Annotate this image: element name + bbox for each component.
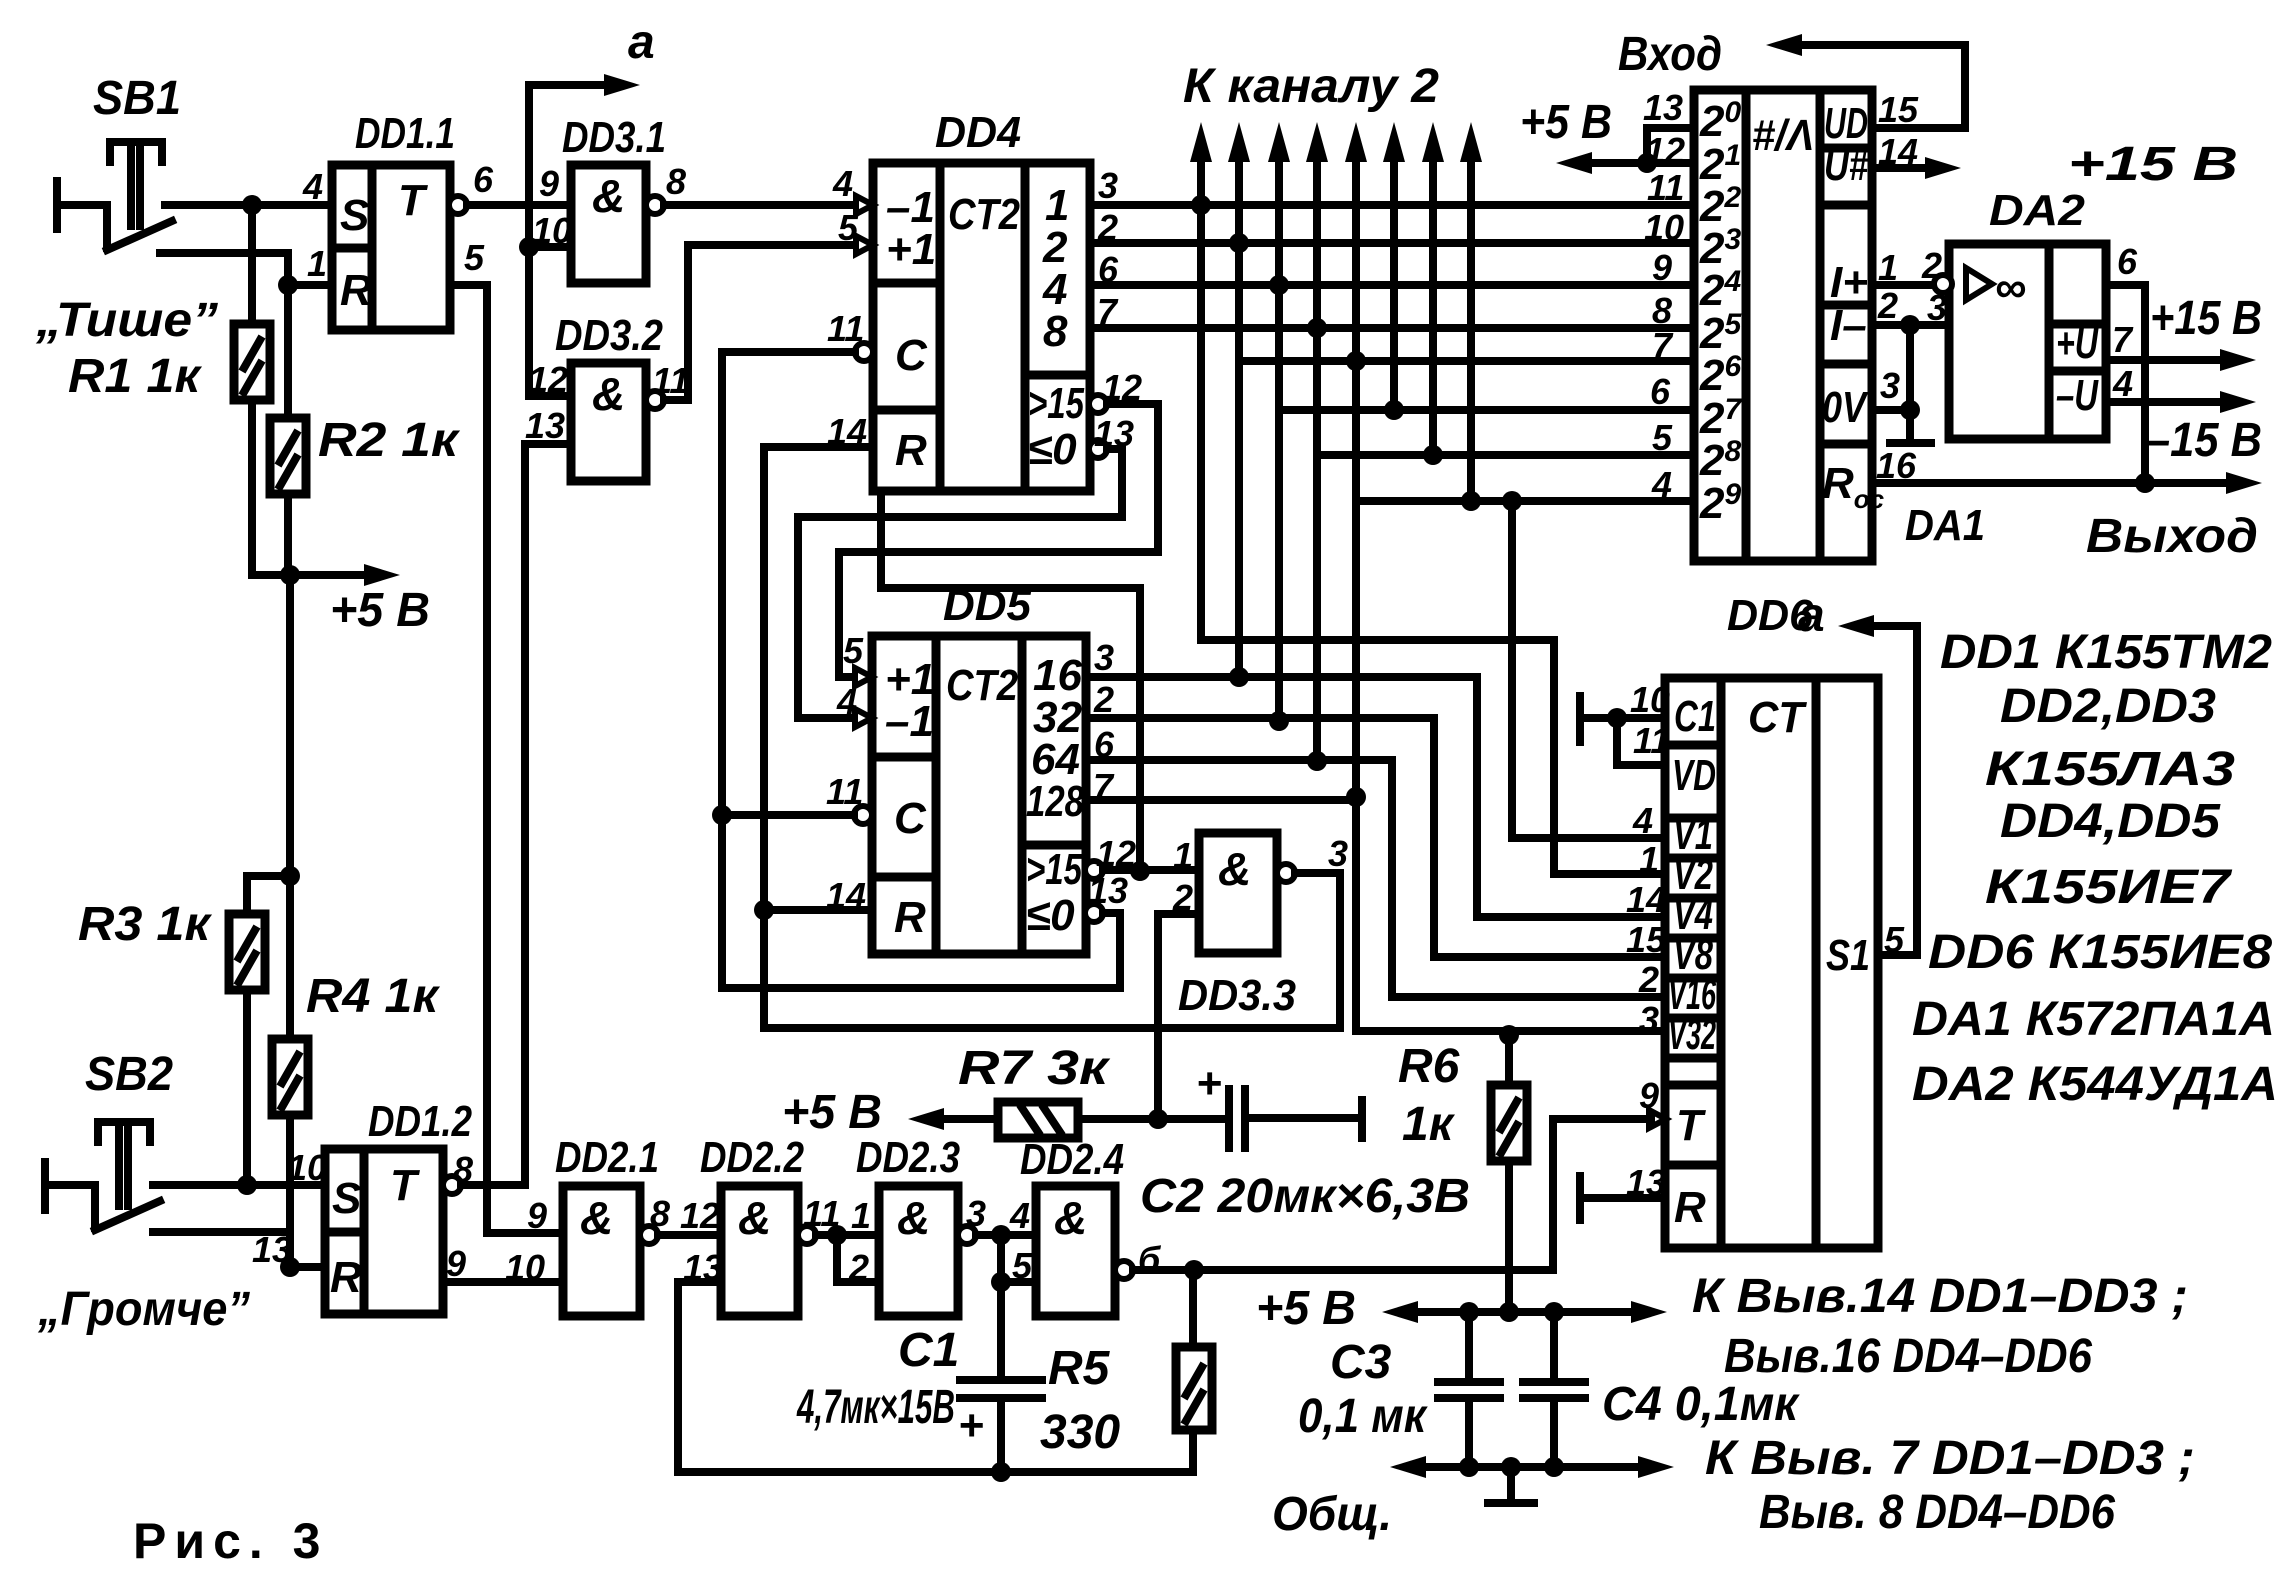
pushbutton SB1 — [107, 221, 172, 250]
svg-text:128: 128 — [1026, 777, 1084, 826]
svg-text:7: 7 — [1652, 325, 1674, 366]
inverted output 8 — [443, 1176, 461, 1194]
svg-text:R: R — [895, 426, 927, 475]
svg-text:&: & — [738, 1192, 771, 1244]
wire R1 to +5V node — [252, 400, 290, 575]
svg-text:+: + — [958, 1401, 984, 1450]
wire terminal to SB2 — [50, 1185, 95, 1228]
svg-text:DD3.2: DD3.2 — [555, 311, 663, 360]
wire DD3.2 pin12 from clock riser — [529, 392, 571, 400]
svg-text:2: 2 — [1093, 679, 1114, 720]
svg-text:+15 В: +15 В — [2150, 292, 2262, 345]
wire DD4 output 4 to DA1 — [1090, 281, 1694, 289]
svg-text:14: 14 — [1878, 131, 1918, 172]
svg-text:&: & — [1054, 1192, 1087, 1244]
svg-text:16: 16 — [1876, 445, 1917, 486]
node a (clock riser to arrow) — [529, 85, 612, 396]
svg-text:DD2.3: DD2.3 — [856, 1133, 960, 1182]
svg-text:DA1: DA1 — [1905, 501, 1985, 550]
+5V loop pins 13,12 — [1580, 128, 1694, 163]
svg-text:5: 5 — [464, 237, 485, 278]
svg-text:DD4: DD4 — [935, 108, 1021, 157]
svg-text:+: + — [1196, 1059, 1222, 1108]
wire R2 to +5V node — [284, 494, 292, 575]
+5V arrow — [290, 571, 372, 579]
riser 6 with arrow — [1390, 160, 1398, 410]
svg-text:DD2.2: DD2.2 — [700, 1133, 804, 1182]
svg-text:T: T — [398, 176, 428, 225]
output S1 to node a arrow — [1862, 626, 1917, 955]
amp symbol — [1966, 268, 1992, 300]
svg-text:CT2: CT2 — [948, 190, 1020, 239]
wire DD2.2 out to DD2.3 — [816, 1231, 879, 1239]
pin 16 Roc output line — [1872, 479, 2228, 487]
svg-text:Общ.: Общ. — [1272, 1488, 1392, 1541]
svg-text:DD3.3: DD3.3 — [1178, 971, 1296, 1020]
pin 3 OV — [1872, 406, 1910, 414]
riser 2 with arrow — [1235, 160, 1243, 677]
junction node on riser — [519, 237, 539, 257]
inverted output 6 — [449, 196, 467, 214]
svg-text:15: 15 — [1878, 89, 1919, 130]
svg-text:DD6 К155ИЕ8: DD6 К155ИЕ8 — [1928, 926, 2272, 979]
svg-text:5: 5 — [838, 207, 859, 248]
svg-text:8: 8 — [666, 161, 686, 202]
counter DD5 — [872, 636, 1086, 954]
svg-text:DA1 К572ПА1А: DA1 К572ПА1А — [1912, 993, 2275, 1046]
junction R3/R4 — [280, 866, 300, 886]
flip-flop DD1.1 — [332, 165, 450, 330]
junction node — [1130, 861, 1150, 881]
svg-text:C1: C1 — [1674, 692, 1716, 741]
svg-text:1: 1 — [1173, 835, 1193, 876]
junction node — [278, 275, 298, 295]
svg-text:C: C — [895, 331, 928, 380]
svg-text:a: a — [1798, 589, 1825, 642]
svg-text:≤0: ≤0 — [1026, 891, 1075, 940]
svg-text:К каналу 2: К каналу 2 — [1183, 60, 1439, 113]
svg-text:–15 В: –15 В — [2146, 414, 2262, 467]
wire DD5 out 64 — [1086, 756, 1392, 764]
svg-text:7: 7 — [2112, 319, 2134, 360]
inverted clock input C — [855, 343, 873, 361]
wire SB1 to DD1.1 pin 4 — [165, 201, 332, 209]
svg-text:4: 4 — [832, 163, 853, 204]
NAND gate DD3.3 — [1199, 833, 1277, 953]
wire clock to T — [1553, 1119, 1651, 1270]
wire DD4 borrow <=0 to DD5 -1 — [798, 449, 1122, 718]
svg-text:R6: R6 — [1398, 1040, 1460, 1093]
wire DD5 out 128 — [1086, 796, 1356, 804]
wire DD5 out 16 — [1086, 673, 1477, 681]
wire DD4 output 2 to DA1 — [1090, 239, 1694, 247]
svg-text:C3: C3 — [1330, 1336, 1392, 1389]
wire DD4 carry >15 to DD5 +1 — [839, 404, 1158, 677]
wire pin6 to DD3.1 pin 9 — [467, 201, 571, 209]
svg-text:V32: V32 — [1668, 1010, 1716, 1059]
svg-text:6: 6 — [2117, 241, 2138, 282]
ground tick — [1890, 439, 1931, 447]
resistor R2 — [284, 285, 292, 418]
NAND gate DD3.2 — [571, 363, 646, 481]
wire stair to DD3.3 pin1 — [881, 491, 1140, 871]
svg-text:C2 20мк×6,3В: C2 20мк×6,3В — [1140, 1170, 1470, 1223]
feeder to DD6 V4 — [1477, 677, 1665, 917]
svg-text:4: 4 — [1632, 800, 1653, 841]
inverted clock input C — [854, 806, 872, 824]
svg-text:R: R — [894, 893, 926, 942]
svg-text:6: 6 — [473, 159, 494, 200]
svg-text:T: T — [390, 1161, 420, 1210]
dynamic input -1 — [856, 196, 873, 214]
resistor R6 — [1505, 1035, 1513, 1085]
svg-text:5: 5 — [1012, 1245, 1033, 1286]
wire terminal to SB1 — [62, 205, 107, 248]
svg-text:+5 В: +5 В — [782, 1086, 882, 1139]
svg-text:1: 1 — [1878, 247, 1898, 288]
NAND gate DD3.1 — [571, 165, 646, 283]
svg-text:10: 10 — [505, 1247, 545, 1288]
svg-text:„Тише”: „Тише” — [35, 294, 218, 347]
wire +5V node down to R3/R4 — [286, 575, 294, 876]
pin 2 I- — [1872, 321, 1949, 329]
svg-text:DD1.2: DD1.2 — [368, 1097, 472, 1146]
svg-text:Рис. 3: Рис. 3 — [133, 1513, 329, 1569]
svg-text:+5 В: +5 В — [1520, 96, 1612, 149]
NAND gate DD2.3 — [879, 1186, 958, 1316]
svg-text:C4 0,1мк: C4 0,1мк — [1602, 1378, 1801, 1431]
svg-text:CT2: CT2 — [946, 661, 1018, 710]
svg-text:Выв.16 DD4–DD6: Выв.16 DD4–DD6 — [1724, 1330, 2092, 1383]
svg-text:+15 В: +15 В — [2068, 138, 2238, 191]
svg-text:12: 12 — [680, 1195, 720, 1236]
svg-text:3: 3 — [1094, 637, 1114, 678]
svg-text:5: 5 — [843, 630, 864, 671]
svg-text:R3 1к: R3 1к — [78, 898, 213, 951]
svg-text:Выв. 8 DD4–DD6: Выв. 8 DD4–DD6 — [1759, 1486, 2115, 1539]
wire DD3.2 pin13 from DD1.2 pin8 — [525, 444, 571, 1185]
wire to DA1 pin6 — [1279, 406, 1694, 414]
svg-text:1: 1 — [851, 1195, 871, 1236]
wire R2 node to DD1.1 pin 1 — [288, 281, 332, 289]
svg-text:1: 1 — [1639, 839, 1659, 880]
svg-text:9: 9 — [1652, 247, 1672, 288]
svg-text:I–: I– — [1830, 301, 1867, 350]
wire R3 to SB2 wire — [243, 990, 251, 1185]
counter DD6 — [1665, 678, 1878, 1248]
svg-text:+5 В: +5 В — [330, 584, 430, 637]
svg-text:SB2: SB2 — [85, 1048, 173, 1101]
svg-text:R: R — [1674, 1183, 1706, 1232]
svg-text:&: & — [897, 1192, 930, 1244]
svg-text:8: 8 — [1043, 307, 1068, 356]
svg-text:+5 В: +5 В — [1256, 1282, 1356, 1335]
svg-text:≤0: ≤0 — [1028, 425, 1077, 474]
riser 8 with arrow — [1467, 160, 1475, 501]
wire DD4 pin14 R net — [764, 447, 873, 910]
terminal (input Тише) — [53, 181, 61, 229]
junction node C net — [712, 805, 732, 825]
svg-text:4: 4 — [1009, 1195, 1030, 1236]
capacitor C3 — [1465, 1312, 1473, 1380]
riser 4 with arrow — [1313, 160, 1321, 761]
jog to DD2.3 pin 2 — [837, 1235, 879, 1282]
svg-text:10: 10 — [1630, 679, 1670, 720]
svg-text:DD4,DD5: DD4,DD5 — [2000, 795, 2221, 848]
svg-text:DD5: DD5 — [943, 581, 1032, 630]
jog to DD2.4 pin 5 — [1001, 1235, 1036, 1282]
+15V arrow (pin 14) — [1872, 164, 1930, 172]
svg-text:R: R — [330, 1253, 362, 1302]
svg-text:∞: ∞ — [1995, 263, 2026, 312]
wire junction to R1 — [248, 205, 256, 324]
riser 5 with arrow (to V32 feeder) — [1352, 160, 1360, 1031]
capacitor C1 — [997, 1282, 1005, 1378]
wire DD2.4 out (clock) — [1133, 1266, 1553, 1274]
svg-text:13: 13 — [1643, 87, 1683, 128]
wire pin9 to DD2.1 pin10 — [443, 1278, 563, 1286]
svg-text:4: 4 — [836, 681, 857, 722]
svg-text:C1: C1 — [898, 1324, 959, 1377]
svg-text:DA2: DA2 — [1989, 186, 2086, 235]
svg-text:2: 2 — [1877, 285, 1898, 326]
svg-text:SB1: SB1 — [93, 72, 181, 125]
svg-text:2: 2 — [848, 1247, 869, 1288]
pin 7 +U with +15V arrow — [2106, 356, 2225, 364]
counter DD4 — [873, 163, 1090, 491]
dynamic input -1 — [855, 709, 872, 727]
svg-text:3: 3 — [1328, 833, 1348, 874]
svg-text:3: 3 — [1098, 165, 1118, 206]
svg-text:&: & — [592, 368, 625, 420]
svg-text:S: S — [340, 191, 369, 240]
wire DD5 R — [764, 906, 872, 914]
svg-text:К155ИЕ7: К155ИЕ7 — [1985, 861, 2233, 914]
wire DD3.3 pin2 to R7/C2 node — [1158, 914, 1199, 1119]
svg-text:R1 1к: R1 1к — [68, 350, 203, 403]
flip-flop DD1.2 — [325, 1149, 443, 1314]
svg-text:#/Λ: #/Λ — [1752, 111, 1814, 160]
wire to VD — [1617, 718, 1665, 765]
feeder to DD6 V1 from DA1 line — [1512, 501, 1665, 838]
svg-text:14: 14 — [1626, 879, 1666, 920]
svg-text:5: 5 — [1652, 417, 1673, 458]
svg-text:+U: +U — [2056, 319, 2099, 368]
svg-text:R2 1к: R2 1к — [318, 414, 461, 467]
wire DD4 clock C net — [722, 352, 855, 988]
svg-text:&: & — [580, 1192, 613, 1244]
svg-text:10: 10 — [1644, 207, 1684, 248]
junction node — [242, 195, 262, 215]
wire to DA1 pin5 — [1317, 451, 1694, 459]
feeder to DD6 V32 — [1356, 1027, 1665, 1035]
junction node R net — [754, 900, 774, 920]
svg-text:10: 10 — [287, 1147, 327, 1188]
svg-text:9: 9 — [527, 1195, 547, 1236]
svg-text:CT: CT — [1748, 693, 1807, 742]
svg-text:13: 13 — [1088, 870, 1128, 911]
NAND gate DD2.2 — [721, 1186, 798, 1316]
op-amp DA2 — [1949, 244, 2106, 439]
resistor R1 — [234, 324, 270, 400]
wire DD3.2 out up to DD4 +1 input — [664, 245, 858, 400]
svg-text:К Выв.14 DD1–DD3 ;: К Выв.14 DD1–DD3 ; — [1692, 1270, 2188, 1323]
svg-text:–1: –1 — [885, 697, 934, 746]
svg-text:–U: –U — [2056, 371, 2099, 420]
wire R6 to +5V rail — [1505, 1161, 1513, 1312]
ground — [1507, 1467, 1515, 1500]
svg-text:9: 9 — [446, 1243, 466, 1284]
output pin 6 — [2106, 285, 2145, 483]
svg-text:11: 11 — [1647, 167, 1684, 208]
feeder wire H1 to DD6 V2 — [1201, 640, 1665, 874]
wire DD3.1 pin10 from clock riser — [529, 243, 571, 251]
terminal (input Gromche) — [41, 1162, 49, 1210]
svg-text:R5: R5 — [1048, 1342, 1111, 1395]
svg-text:S1: S1 — [1826, 931, 1870, 980]
wire DD5 out 32 — [1086, 714, 1434, 722]
svg-text:4: 4 — [302, 166, 323, 207]
svg-text:DD1.1: DD1.1 — [355, 109, 455, 158]
wire SB2 lower contact to R pin 13 — [153, 1232, 325, 1267]
pin 1 I+ to DA2 — [1872, 281, 1936, 289]
+5V supply rail — [1408, 1308, 1640, 1316]
capacitor C4 — [1550, 1312, 1558, 1380]
wire pin5 down to DD2.1 pin 9 — [450, 285, 563, 1233]
wire SB1 lower contact to R pin — [160, 253, 288, 285]
svg-text:Вход: Вход — [1618, 28, 1722, 81]
svg-text:3: 3 — [1880, 365, 1900, 406]
svg-text:Выход: Выход — [2086, 510, 2258, 563]
wire pin8 to DD3.2 pin13 riser — [461, 1181, 524, 1189]
wire DD4 output 8 to DA1 — [1090, 324, 1694, 332]
svg-text:U#: U# — [1824, 141, 1868, 190]
svg-text:4: 4 — [1651, 464, 1672, 505]
wire SB2 to DD1.2 pin 10 — [153, 1181, 325, 1189]
component list — [1912, 626, 2278, 1111]
logic-1 terminal for C1/VD — [1576, 696, 1584, 742]
wire R4 down to R-pin node — [286, 1115, 294, 1267]
svg-text:6: 6 — [1650, 371, 1671, 412]
svg-text:4,7мк×15В: 4,7мк×15В — [796, 1381, 955, 1434]
svg-text:К155ЛА3: К155ЛА3 — [1985, 743, 2235, 796]
svg-text:9: 9 — [539, 163, 559, 204]
DAC DA1 — [1694, 90, 1872, 561]
svg-text:>15: >15 — [1026, 845, 1082, 894]
svg-text:DD2,DD3: DD2,DD3 — [2000, 680, 2216, 733]
svg-text:&: & — [1218, 843, 1251, 895]
dynamic input +1 — [856, 236, 873, 254]
riser 3 with arrow — [1275, 160, 1283, 721]
svg-text:S: S — [332, 1174, 361, 1223]
wire DD2.2 pin13 from C1 loop — [678, 1282, 721, 1472]
NAND gate DD2.1 — [563, 1186, 640, 1316]
svg-text:R7 3к: R7 3к — [958, 1042, 1111, 1095]
svg-text:4: 4 — [2112, 363, 2133, 404]
pushbutton SB2 — [95, 1201, 160, 1230]
svg-text:15: 15 — [1626, 919, 1667, 960]
svg-text:3: 3 — [1639, 999, 1659, 1040]
NAND gate DD2.4 — [1036, 1186, 1115, 1316]
svg-text:2: 2 — [1638, 959, 1659, 1000]
feeder to DD6 V16 — [1392, 760, 1665, 997]
svg-text:DD1 К155ТМ2: DD1 К155ТМ2 — [1940, 626, 2272, 679]
feeder to DD6 V8 — [1434, 718, 1665, 957]
inverting input circle pin 2 — [1934, 275, 1952, 293]
wire DD5 >15 to DD3.3 pin 1 — [1103, 866, 1199, 874]
riser 1 with arrow — [1197, 160, 1205, 640]
svg-text:I+: I+ — [1830, 258, 1868, 307]
riser 7 with arrow — [1429, 160, 1437, 455]
svg-text:1к: 1к — [1402, 1098, 1456, 1151]
pin 4 -U with -15V arrow — [2106, 398, 2225, 406]
svg-text:VD: VD — [1672, 751, 1716, 800]
svg-text:„Громче”: „Громче” — [37, 1283, 250, 1336]
resistor R5 — [1189, 1270, 1197, 1347]
wire DD2.3 out to DD2.4 — [976, 1231, 1036, 1239]
svg-text:C: C — [894, 794, 927, 843]
dynamic input +1 — [855, 668, 872, 686]
resistor R3 — [247, 876, 290, 914]
capacitor C2 — [1229, 1089, 1245, 1148]
svg-text:+1: +1 — [886, 225, 936, 274]
svg-text:0V: 0V — [1822, 383, 1869, 432]
svg-text:a: a — [628, 16, 655, 69]
wire C1 bottom loop — [678, 1468, 1193, 1476]
svg-text:DD2.1: DD2.1 — [555, 1133, 659, 1182]
svg-text:13: 13 — [252, 1229, 292, 1270]
svg-text:>15: >15 — [1028, 379, 1084, 428]
svg-text:T: T — [1676, 1101, 1706, 1150]
svg-text:330: 330 — [1040, 1406, 1120, 1459]
svg-text:11: 11 — [1633, 720, 1670, 761]
wire DD4 output 1 to DA1 — [1090, 201, 1694, 209]
wire DD3.1 out to DD4 -1 input — [664, 201, 858, 209]
svg-text:0,1 мк: 0,1 мк — [1298, 1390, 1428, 1443]
wire DD2.1 out to DD2.2 — [658, 1231, 721, 1239]
svg-text:1: 1 — [307, 243, 327, 284]
wire DD3.3 output to R net of counters — [764, 873, 1340, 1028]
logic-0 terminal for R — [1576, 1176, 1584, 1220]
wire DD5 <=0 to clock-A line — [722, 913, 1120, 988]
svg-text:R4 1к: R4 1к — [306, 970, 441, 1023]
wire DD5 lines risen to DA1 pin7 — [1239, 357, 1694, 365]
svg-text:13: 13 — [525, 405, 565, 446]
dynamic input T — [1649, 1110, 1666, 1128]
svg-text:R: R — [340, 266, 372, 315]
resistor R4 — [286, 876, 294, 1039]
wire DD5 C to clock net — [722, 811, 854, 819]
common (Obshch) rail — [1416, 1463, 1640, 1471]
svg-text:DD3.1: DD3.1 — [562, 113, 666, 162]
svg-text:&: & — [592, 170, 625, 222]
Vhod arrow (pin 15 UD) — [1790, 45, 1965, 128]
wire to DA1 pin4 — [1356, 497, 1694, 505]
svg-text:DA2 К544УД1А: DA2 К544УД1А — [1912, 1058, 2278, 1111]
svg-text:К Выв. 7 DD1–DD3 ;: К Выв. 7 DD1–DD3 ; — [1705, 1432, 2195, 1485]
